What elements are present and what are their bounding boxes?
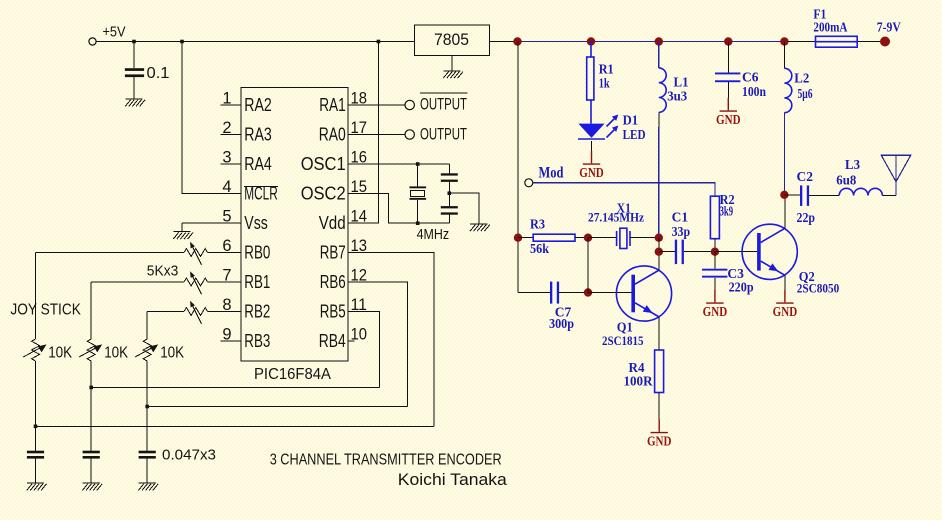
wire cap 0.1 bottom: [133, 77, 135, 99]
svg-text:27.145MHz: 27.145MHz: [588, 209, 644, 224]
svg-text:2: 2: [222, 119, 231, 137]
wire RB0 row: [36, 253, 242, 340]
svg-text:2SC1815: 2SC1815: [602, 333, 644, 348]
wire L3 to antenna: [882, 195, 896, 197]
svg-text:300p: 300p: [549, 317, 574, 332]
wire rail F1 terminal: [784, 41, 885, 43]
node rail-R1: [587, 37, 595, 45]
regulator U2 7805: [415, 25, 490, 55]
IC U1 PIC16F84A body: [241, 88, 348, 362]
svg-text:OSC1: OSC1: [301, 154, 346, 174]
node C7-Q1 base: [584, 288, 592, 296]
svg-text:RA1: RA1: [319, 95, 346, 115]
ground 7805: [443, 71, 463, 78]
ground CJ3: [138, 483, 158, 490]
svg-text:D1: D1: [623, 114, 639, 129]
svg-text:JOY STICK: JOY STICK: [10, 301, 81, 318]
capacitor C6: [715, 42, 740, 99]
pin stub 9: [221, 340, 241, 342]
wire Q1 collector: [658, 266, 660, 270]
svg-text:22p: 22p: [797, 211, 816, 226]
pin wire 13 RB7 wrap: [348, 253, 434, 427]
wire 7805 out: [490, 41, 518, 43]
terminal OUTPUT1: [405, 100, 414, 109]
pin stub 10: [348, 340, 355, 342]
ground osc: [470, 224, 490, 231]
diode D1 LED: [578, 115, 618, 140]
node X1-L1: [655, 234, 663, 242]
wire RB2 row: [147, 312, 241, 340]
wire Vss gnd stub: [181, 223, 183, 232]
pin stub 1: [221, 104, 241, 106]
wire Q1 emitter down: [658, 317, 660, 350]
node C1-R2-Q2: [711, 248, 719, 256]
svg-text:2SC8050: 2SC8050: [797, 281, 840, 296]
terminal +5V: [89, 38, 96, 45]
pin wire 15 OSC2 jog: [348, 194, 449, 224]
inductor L3: [839, 188, 882, 195]
transistor Q2 2SC8050: [742, 224, 797, 279]
wire crystal bottom: [417, 200, 419, 223]
capacitor C2: [784, 194, 800, 196]
wire +5V rail: [96, 41, 414, 43]
crystal X1: [588, 237, 617, 239]
potentiometer P2 10K: [79, 339, 102, 361]
wire Q2 emitter: [784, 275, 786, 290]
svg-text:1: 1: [222, 89, 231, 107]
wire R3-C7 vertical part of node column: [587, 238, 589, 293]
ground CJ1: [27, 483, 47, 490]
ground CJ2: [82, 483, 102, 490]
pin wire 11 RB5 wrap: [348, 312, 380, 388]
svg-text:220p: 220p: [729, 280, 754, 295]
capacitor C1: [659, 251, 675, 253]
node rail-L2: [780, 37, 788, 45]
svg-text:OUTPUT: OUTPUT: [420, 95, 467, 114]
wire RB1 row: [91, 282, 241, 339]
pin stub 18 RA1 to output: [348, 104, 405, 106]
terminal Mod: [525, 179, 533, 187]
svg-text:0.047x3: 0.047x3: [162, 447, 216, 464]
svg-text:Mod: Mod: [539, 165, 564, 182]
wire bus RB6: [147, 406, 407, 408]
svg-text:C1: C1: [672, 210, 689, 225]
node rail-MCLR: [180, 40, 184, 44]
svg-text:R1: R1: [599, 63, 614, 78]
svg-text:9: 9: [222, 325, 231, 343]
node rail-C0.1: [132, 40, 136, 44]
potentiometer P1 10K: [23, 339, 46, 361]
svg-text:0.1: 0.1: [147, 65, 170, 82]
svg-text:33p: 33p: [672, 225, 691, 240]
pin stub 5 Vss wire: [182, 222, 241, 224]
svg-text:5Kx3: 5Kx3: [147, 263, 179, 280]
svg-text:12: 12: [351, 266, 368, 284]
node osc caps mid: [448, 191, 452, 195]
svg-text:+5V: +5V: [103, 25, 126, 41]
fuse F1: [816, 36, 858, 47]
wire D1 cathode: [591, 141, 593, 151]
node pot3 bus: [145, 405, 149, 409]
ground Vss: [173, 232, 193, 239]
svg-text:L1: L1: [674, 75, 689, 90]
terminal 7-9V: [880, 37, 890, 47]
node crystal-OSC2: [416, 221, 420, 225]
wire pot2 bottom: [90, 361, 92, 451]
svg-text:RB5: RB5: [320, 301, 346, 321]
resistor R3: [518, 237, 533, 239]
svg-text:RA3: RA3: [244, 124, 271, 144]
svg-text:PIC16F84A: PIC16F84A: [254, 366, 331, 383]
svg-text:RB3: RB3: [244, 331, 270, 351]
svg-text:6u8: 6u8: [836, 173, 856, 188]
svg-text:RB7: RB7: [320, 242, 346, 262]
svg-text:4: 4: [222, 178, 231, 196]
svg-text:18: 18: [351, 89, 368, 107]
ground R4: [647, 419, 672, 448]
antenna: [881, 155, 910, 195]
wire R2 bottom: [714, 239, 716, 252]
svg-text:5μ6: 5μ6: [798, 87, 813, 102]
node R3 left: [514, 234, 522, 242]
svg-text:3k9: 3k9: [720, 204, 734, 219]
svg-text:C2: C2: [797, 170, 814, 185]
pin wire 16 OSC1: [348, 163, 449, 165]
wire crystal top: [417, 164, 419, 186]
wire pot1 bottom: [35, 361, 37, 451]
trimmer VR3 5K: [184, 301, 207, 324]
svg-text:5: 5: [222, 207, 231, 225]
resistor R4: [655, 350, 664, 393]
svg-text:RA2: RA2: [244, 95, 271, 115]
svg-text:13: 13: [351, 237, 368, 255]
node rail-7805out: [513, 37, 521, 45]
svg-text:3u3: 3u3: [667, 90, 687, 105]
wire L1 bottom: [658, 112, 660, 127]
node OSC1-crystal: [416, 162, 420, 166]
capacitor CL2 osc: [441, 206, 458, 223]
node C1 branch: [655, 248, 663, 256]
trimmer VR1 5K: [184, 242, 207, 265]
pin stub 2: [221, 134, 241, 136]
node rail-L1: [655, 37, 663, 45]
svg-text:LED: LED: [623, 128, 646, 143]
wire R4 bottom: [658, 393, 660, 420]
wire 7805 gnd: [451, 55, 453, 71]
svg-text:10K: 10K: [48, 345, 73, 362]
pin wire 12 RB6 wrap: [348, 282, 407, 407]
wire bus RB5: [91, 386, 379, 388]
node rail-C6: [724, 37, 732, 45]
resistor R1: [590, 42, 592, 124]
terminal OUTPUT2: [405, 130, 414, 139]
pin stub 17 RA0 to output: [348, 134, 405, 136]
inductor L1: [658, 42, 660, 68]
wire Q2 collector: [784, 195, 786, 229]
wire MCLR vertical: [182, 42, 241, 194]
ground D1: [579, 151, 604, 180]
svg-text:200mA: 200mA: [813, 21, 848, 36]
node Q2c-C2: [780, 191, 788, 199]
wire L1col down: [658, 238, 660, 266]
capacitor CJ1 0.047: [27, 451, 44, 483]
svg-text:C6: C6: [742, 71, 759, 86]
svg-text:10K: 10K: [160, 345, 185, 362]
resistor R2: [710, 196, 719, 239]
svg-text:7805: 7805: [434, 30, 469, 49]
capacitor CJ2 0.047: [83, 451, 100, 483]
ground C6: [716, 98, 741, 127]
capacitor C3: [702, 252, 727, 290]
wire Q1 base: [588, 292, 631, 294]
wire pot3 bottom: [146, 361, 148, 451]
svg-text:7-9V: 7-9V: [877, 21, 901, 36]
svg-text:17: 17: [351, 119, 368, 137]
wire L2 bottom: [783, 113, 785, 195]
trimmer VR2 5K: [184, 271, 207, 294]
svg-text:RB0: RB0: [244, 242, 270, 262]
wire bus RB7: [36, 425, 435, 427]
svg-text:1k: 1k: [599, 77, 610, 92]
svg-text:RB6: RB6: [320, 272, 346, 292]
svg-text:100R: 100R: [624, 375, 654, 390]
svg-text:4MHz: 4MHz: [417, 226, 450, 243]
crystal XT 4MHz: [410, 186, 427, 199]
svg-text:RA4: RA4: [244, 154, 271, 174]
capacitor 0.1: [125, 68, 144, 77]
svg-text:11: 11: [351, 296, 368, 314]
svg-text:RB2: RB2: [244, 301, 270, 321]
ground Q2: [773, 290, 798, 319]
svg-text:L3: L3: [845, 158, 860, 173]
svg-text:RB4: RB4: [319, 331, 346, 351]
svg-text:RA0: RA0: [319, 124, 346, 144]
svg-text:15: 15: [351, 178, 368, 196]
wire osc caps gnd: [449, 193, 479, 224]
ground cap 0.1: [125, 99, 145, 106]
node R3-X1: [584, 234, 592, 242]
svg-text:10K: 10K: [104, 345, 129, 362]
svg-text:L2: L2: [794, 71, 809, 86]
svg-text:OSC2: OSC2: [301, 183, 346, 203]
svg-text:Koichi Tanaka: Koichi Tanaka: [398, 471, 508, 489]
MCLR overline: [244, 185, 278, 187]
node pot1 bus: [34, 425, 38, 429]
inductor L2: [783, 42, 785, 69]
transistor Q1 2SC1815: [616, 266, 671, 321]
potentiometer P3 10K: [135, 339, 158, 361]
wire Mod to R2: [533, 183, 715, 196]
capacitor CL1 osc: [441, 164, 458, 206]
wire rail navy 7805 to L2: [518, 41, 785, 43]
svg-text:3 CHANNEL TRANSMITTER ENCODER: 3 CHANNEL TRANSMITTER ENCODER: [270, 451, 502, 468]
svg-text:Vss: Vss: [244, 213, 267, 233]
capacitor C7: [518, 292, 550, 294]
svg-text:56k: 56k: [530, 242, 549, 257]
ground C3: [703, 290, 728, 319]
svg-text:14: 14: [351, 207, 368, 225]
svg-text:100n: 100n: [742, 85, 766, 100]
wire cap 0.1 top: [133, 42, 135, 69]
wire left column: [517, 42, 519, 293]
pin wire 14 Vdd to rail: [348, 42, 378, 224]
pin stub 3: [221, 163, 241, 165]
capacitor CJ3 0.047: [139, 451, 156, 483]
svg-text:RB1: RB1: [244, 272, 270, 292]
node rail-Vdd: [377, 40, 381, 44]
svg-text:OUTPUT: OUTPUT: [420, 124, 467, 143]
svg-text:Vdd: Vdd: [319, 213, 346, 233]
svg-text:3: 3: [222, 148, 231, 166]
svg-text:10: 10: [351, 325, 368, 343]
svg-text:R3: R3: [530, 218, 545, 233]
wire Q2 base: [715, 251, 757, 253]
node pot2 bus: [89, 386, 93, 390]
svg-text:16: 16: [351, 148, 368, 166]
